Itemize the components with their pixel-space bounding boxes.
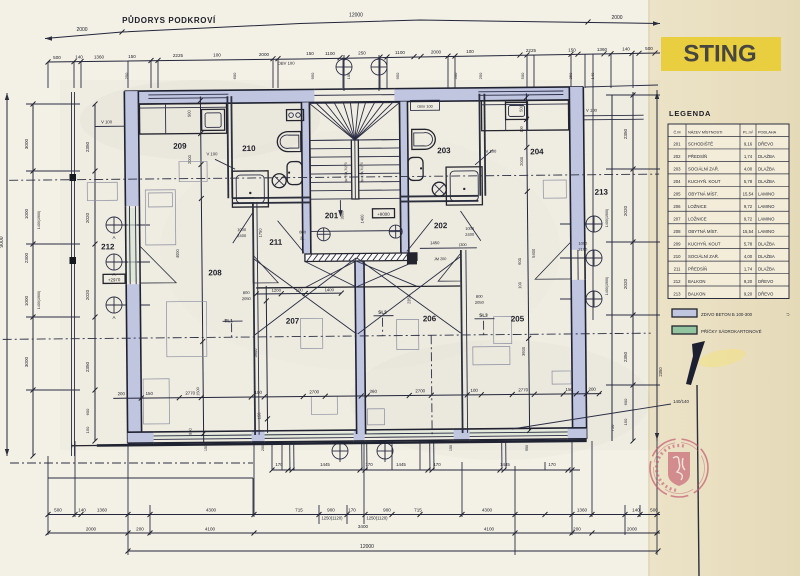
svg-text:DLAŽBA: DLAŽBA (758, 154, 775, 159)
svg-text:2050: 2050 (242, 296, 252, 301)
svg-text:150: 150 (146, 391, 154, 396)
svg-text:V 100: V 100 (586, 108, 598, 113)
svg-text:750: 750 (610, 424, 615, 431)
svg-text:3900: 3900 (340, 211, 344, 219)
svg-text:1000: 1000 (578, 241, 588, 246)
svg-text:201: 201 (325, 211, 339, 220)
svg-text:100: 100 (471, 388, 479, 393)
svg-text:2770: 2770 (518, 387, 528, 392)
svg-text:5,78: 5,78 (744, 179, 753, 184)
svg-text:1445: 1445 (396, 462, 406, 467)
svg-text:4300: 4300 (206, 508, 217, 513)
svg-text:1200: 1200 (272, 288, 282, 293)
svg-text:V 100: V 100 (206, 151, 218, 156)
svg-text:(300: (300 (459, 243, 467, 247)
svg-text:1445: 1445 (320, 462, 330, 467)
svg-text:140: 140 (590, 72, 595, 79)
svg-text:LAMINO: LAMINO (758, 192, 775, 197)
svg-text:3600: 3600 (253, 348, 258, 358)
svg-text:2000: 2000 (611, 15, 622, 21)
svg-text:170: 170 (548, 462, 556, 467)
svg-text:KUCHYŇ. KOUT: KUCHYŇ. KOUT (688, 241, 721, 246)
svg-text:2350: 2350 (85, 361, 90, 372)
svg-text:3400: 3400 (358, 524, 369, 529)
svg-text:1000: 1000 (24, 208, 29, 219)
svg-text:DLAŽBA: DLAŽBA (758, 179, 775, 184)
svg-text:212: 212 (673, 279, 681, 284)
svg-text:208: 208 (208, 268, 222, 277)
svg-text:ZDIVO BETON Ƃ 100-300: ZDIVO BETON Ƃ 100-300 (701, 312, 753, 317)
svg-text:1400: 1400 (325, 287, 335, 292)
svg-text:1400: 1400 (360, 214, 365, 224)
svg-text:LOŽNICE: LOŽNICE (688, 204, 707, 209)
svg-text:150: 150 (566, 387, 574, 392)
svg-text:800: 800 (476, 294, 483, 299)
svg-text:950: 950 (395, 72, 400, 79)
svg-text:1,74: 1,74 (744, 266, 753, 271)
svg-text:2050: 2050 (475, 300, 485, 305)
svg-text:200: 200 (261, 445, 265, 451)
svg-text:2700: 2700 (309, 389, 319, 394)
svg-text:205: 205 (673, 192, 681, 197)
svg-text:170: 170 (348, 508, 356, 513)
svg-text:203: 203 (437, 146, 451, 155)
svg-text:3600: 3600 (521, 346, 526, 356)
svg-text:2020: 2020 (85, 289, 90, 300)
svg-text:150: 150 (568, 47, 576, 52)
svg-text:211: 211 (269, 238, 283, 247)
svg-text:SCHODIŠTĚ: SCHODIŠTĚ (688, 142, 713, 147)
svg-text:2225: 2225 (526, 48, 537, 53)
svg-text:2100: 2100 (578, 247, 588, 252)
svg-text:15,54: 15,54 (743, 192, 754, 197)
svg-text:BALKON: BALKON (688, 291, 705, 296)
svg-text:+8000: +8000 (377, 212, 390, 217)
svg-text:NÁZEV MÍSTNOSTI: NÁZEV MÍSTNOSTI (688, 130, 722, 134)
svg-text:500: 500 (53, 55, 61, 60)
svg-text:800: 800 (299, 229, 306, 234)
svg-text:1250(1120): 1250(1120) (366, 516, 388, 521)
svg-text:150: 150 (85, 426, 90, 433)
svg-text:4,00: 4,00 (744, 254, 753, 259)
svg-text:DLAŽBA: DLAŽBA (758, 254, 775, 259)
svg-text:207: 207 (673, 217, 681, 222)
svg-text:SOCIÁLNÍ ZAŘ.: SOCIÁLNÍ ZAŘ. (688, 167, 719, 172)
svg-text:800: 800 (243, 290, 250, 295)
svg-text:1100: 1100 (325, 51, 335, 56)
svg-text:1750: 1750 (258, 228, 263, 238)
svg-text:200: 200 (136, 527, 144, 532)
svg-text:9,20: 9,20 (744, 291, 753, 296)
svg-text:500: 500 (645, 46, 653, 51)
svg-text:BALKON: BALKON (688, 279, 705, 284)
svg-text:1360: 1360 (94, 54, 105, 59)
svg-text:DLAŽBA: DLAŽBA (758, 167, 775, 172)
svg-text:140: 140 (75, 55, 83, 60)
svg-text:PŘEDSÍŇ: PŘEDSÍŇ (688, 266, 707, 271)
svg-text:900: 900 (327, 508, 335, 513)
svg-text:1360: 1360 (597, 47, 608, 52)
svg-text:900: 900 (383, 508, 391, 513)
svg-text:100: 100 (296, 287, 304, 292)
svg-text:2350: 2350 (85, 141, 90, 152)
svg-text:150: 150 (449, 445, 453, 451)
svg-text:⊃: ⊃ (786, 312, 790, 317)
svg-text:205: 205 (511, 314, 525, 323)
svg-text:213: 213 (673, 291, 681, 296)
svg-text:1400(1900): 1400(1900) (37, 211, 41, 229)
svg-text:+2970: +2970 (108, 277, 121, 282)
svg-text:250: 250 (124, 72, 129, 79)
svg-text:600: 600 (623, 398, 628, 405)
svg-text:140: 140 (632, 508, 640, 513)
svg-text:9,20: 9,20 (744, 279, 753, 284)
svg-text:2400: 2400 (465, 232, 475, 237)
svg-text:OBYTNÁ MÍST.: OBYTNÁ MÍST. (688, 192, 718, 197)
svg-text:1000: 1000 (465, 226, 475, 231)
svg-text:204: 204 (673, 179, 681, 184)
svg-text:15,54: 15,54 (743, 229, 754, 234)
svg-text:LEGENDA: LEGENDA (669, 109, 711, 118)
svg-text:4100: 4100 (205, 527, 216, 532)
svg-text:250: 250 (568, 72, 573, 79)
svg-text:PODLAHA: PODLAHA (758, 130, 777, 134)
svg-text:OBV 100: OBV 100 (417, 105, 432, 109)
svg-text:150: 150 (306, 51, 314, 56)
svg-text:5400: 5400 (531, 248, 536, 258)
svg-text:SL3: SL3 (479, 313, 488, 318)
svg-text:250: 250 (478, 72, 483, 79)
svg-text:2350: 2350 (658, 367, 663, 377)
svg-text:200: 200 (573, 527, 581, 532)
svg-text:PL.m²: PL.m² (743, 130, 754, 134)
svg-text:2...: 2... (300, 235, 306, 240)
svg-text:200: 200 (589, 387, 597, 392)
svg-text:200: 200 (118, 391, 126, 396)
svg-text:212: 212 (101, 242, 115, 251)
svg-text:1360: 1360 (577, 508, 588, 513)
svg-text:2000: 2000 (627, 527, 638, 532)
svg-text:950: 950 (188, 427, 193, 434)
svg-text:170: 170 (433, 462, 441, 467)
svg-text:PŘEDSÍŇ: PŘEDSÍŇ (688, 154, 707, 159)
svg-text:140/140: 140/140 (673, 399, 689, 404)
svg-text:2400: 2400 (237, 233, 247, 238)
svg-text:715: 715 (295, 508, 303, 513)
svg-text:LAMINO: LAMINO (758, 204, 775, 209)
svg-text:2225: 2225 (173, 53, 184, 58)
svg-text:715: 715 (414, 508, 422, 513)
svg-text:OBV 100: OBV 100 (278, 61, 296, 66)
svg-text:202: 202 (673, 154, 681, 159)
svg-text:1500: 1500 (196, 387, 200, 395)
svg-text:500: 500 (518, 104, 523, 111)
svg-text:208: 208 (673, 229, 681, 234)
svg-text:140: 140 (622, 47, 630, 52)
svg-text:2700: 2700 (415, 388, 425, 393)
svg-text:206: 206 (673, 204, 681, 209)
svg-text:201: 201 (673, 142, 681, 147)
svg-text:950: 950 (525, 445, 529, 451)
svg-text:Č.M: Č.M (674, 129, 681, 134)
svg-text:207: 207 (286, 317, 300, 326)
svg-text:4300: 4300 (482, 508, 493, 513)
svg-text:LAMINO: LAMINO (758, 229, 775, 234)
svg-text:5,78: 5,78 (744, 241, 753, 246)
svg-text:12000: 12000 (360, 544, 374, 550)
svg-text:1250(1120): 1250(1120) (321, 516, 343, 521)
svg-text:9x 154,7/270: 9x 154,7/270 (344, 162, 348, 182)
svg-text:4000: 4000 (175, 248, 180, 258)
svg-text:250: 250 (358, 50, 366, 55)
svg-text:9,72: 9,72 (744, 204, 753, 209)
svg-text:9,72: 9,72 (744, 217, 753, 222)
svg-text:4100: 4100 (484, 527, 495, 532)
svg-text:1450: 1450 (430, 240, 440, 245)
svg-text:9,16: 9,16 (744, 142, 753, 147)
svg-text:A: A (112, 315, 115, 320)
svg-text:2300: 2300 (24, 252, 29, 263)
svg-text:950: 950 (310, 72, 315, 79)
svg-text:500: 500 (453, 72, 458, 79)
svg-text:2000: 2000 (76, 27, 87, 33)
svg-text:3000: 3000 (24, 138, 29, 149)
svg-text:150: 150 (256, 412, 261, 419)
svg-text:2770: 2770 (185, 391, 195, 396)
svg-text:140: 140 (78, 508, 86, 513)
svg-text:150: 150 (204, 445, 208, 451)
svg-text:1100: 1100 (395, 50, 405, 55)
svg-text:2000: 2000 (519, 156, 524, 166)
svg-text:500: 500 (520, 72, 525, 79)
svg-text:DŘEVO: DŘEVO (758, 291, 774, 296)
svg-text:1000: 1000 (24, 295, 29, 306)
svg-text:2020: 2020 (85, 212, 90, 223)
svg-text:213: 213 (595, 188, 609, 197)
svg-text:2000: 2000 (187, 154, 192, 164)
svg-text:LOŽNICE: LOŽNICE (688, 217, 707, 222)
svg-text:150: 150 (128, 54, 136, 59)
svg-text:V 100: V 100 (101, 119, 113, 124)
svg-text:2000: 2000 (86, 527, 97, 532)
svg-text:SL2: SL2 (378, 310, 387, 315)
svg-text:PŘÍČKY SÁDROKARTONOVÉ: PŘÍČKY SÁDROKARTONOVÉ (701, 329, 762, 334)
svg-text:100: 100 (346, 72, 351, 79)
svg-text:SOCIÁLNÍ ZAŘ.: SOCIÁLNÍ ZAŘ. (688, 254, 719, 259)
svg-text:2000: 2000 (259, 52, 270, 57)
svg-text:DŘEVO: DŘEVO (758, 142, 774, 147)
svg-text:3000: 3000 (24, 356, 29, 367)
svg-text:PŮDORYS PODKROVÍ: PŮDORYS PODKROVÍ (122, 15, 216, 25)
svg-text:A: A (112, 235, 115, 240)
svg-text:2350: 2350 (623, 128, 628, 139)
svg-text:DLAŽBA: DLAŽBA (758, 241, 775, 246)
svg-text:9x 154,7/270: 9x 154,7/270 (360, 162, 364, 182)
svg-text:2020: 2020 (623, 278, 628, 289)
svg-text:DLAŽBA: DLAŽBA (758, 266, 775, 271)
svg-text:1400(1900): 1400(1900) (37, 291, 41, 309)
svg-text:600: 600 (85, 408, 90, 415)
svg-text:1400(1900): 1400(1900) (605, 277, 609, 295)
svg-text:209: 209 (173, 142, 187, 151)
svg-text:202: 202 (434, 221, 448, 230)
svg-text:209: 209 (673, 241, 681, 246)
svg-text:500: 500 (186, 109, 191, 116)
svg-text:210: 210 (242, 144, 256, 153)
svg-text:206: 206 (423, 314, 437, 323)
svg-text:1,74: 1,74 (744, 154, 753, 159)
svg-text:1360: 1360 (97, 508, 108, 513)
svg-text:2000: 2000 (431, 49, 442, 54)
svg-text:150: 150 (623, 418, 628, 425)
svg-text:100: 100 (520, 126, 524, 132)
svg-text:2020: 2020 (623, 205, 628, 216)
svg-text:4,00: 4,00 (744, 167, 753, 172)
svg-text:JM 200: JM 200 (434, 257, 446, 261)
svg-text:204: 204 (530, 147, 544, 156)
svg-text:12000: 12000 (349, 13, 363, 19)
svg-text:360: 360 (370, 389, 378, 394)
svg-text:KUCHYŇ. KOUT: KUCHYŇ. KOUT (688, 179, 721, 184)
svg-text:500: 500 (54, 508, 62, 513)
svg-text:1400(1900): 1400(1900) (605, 209, 609, 227)
svg-text:203: 203 (673, 167, 681, 172)
svg-text:DŘEVO: DŘEVO (758, 279, 774, 284)
svg-text:2350: 2350 (406, 294, 411, 304)
svg-text:100: 100 (213, 53, 221, 58)
svg-text:STING: STING (683, 41, 756, 68)
svg-text:600: 600 (232, 72, 237, 79)
svg-text:LAMINO: LAMINO (758, 217, 775, 222)
svg-text:600: 600 (517, 257, 522, 264)
svg-text:211: 211 (674, 266, 681, 271)
svg-text:SL1: SL1 (224, 318, 233, 323)
svg-text:1000: 1000 (237, 227, 247, 232)
svg-text:210: 210 (673, 254, 681, 259)
svg-text:100: 100 (517, 281, 522, 288)
svg-text:100: 100 (466, 49, 474, 54)
svg-text:100: 100 (255, 390, 263, 395)
svg-text:2350: 2350 (623, 351, 628, 362)
svg-text:9000: 9000 (0, 236, 5, 247)
svg-text:OBYTNÁ MÍST.: OBYTNÁ MÍST. (688, 229, 718, 234)
